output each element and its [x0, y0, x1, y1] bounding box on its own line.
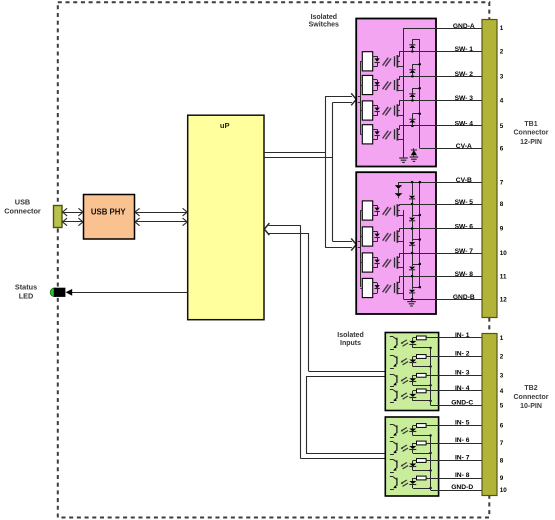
svg-text:12-PIN: 12-PIN	[520, 139, 542, 146]
svg-text:CV-B: CV-B	[456, 177, 472, 184]
svg-text:7: 7	[500, 179, 504, 186]
svg-text:IN- 2: IN- 2	[455, 351, 470, 358]
svg-text:Status: Status	[15, 283, 37, 292]
svg-text:IN- 1: IN- 1	[455, 332, 470, 339]
svg-text:5: 5	[500, 123, 504, 130]
svg-text:8: 8	[500, 458, 504, 465]
svg-text:TB2: TB2	[524, 385, 537, 392]
svg-text:uP: uP	[220, 121, 230, 130]
svg-text:IN- 4: IN- 4	[455, 385, 470, 392]
svg-text:9: 9	[500, 475, 504, 482]
svg-text:10-PIN: 10-PIN	[520, 403, 542, 410]
svg-text:TB1: TB1	[524, 121, 537, 128]
svg-text:CV-A: CV-A	[456, 143, 472, 150]
svg-text:Inputs: Inputs	[340, 340, 361, 347]
svg-text:6: 6	[500, 423, 504, 430]
svg-text:3: 3	[500, 373, 504, 380]
svg-text:Isolated: Isolated	[337, 332, 363, 339]
svg-text:11: 11	[500, 273, 507, 280]
svg-text:8: 8	[500, 201, 504, 208]
svg-text:5: 5	[500, 402, 504, 409]
svg-text:SW- 7: SW- 7	[455, 248, 474, 255]
svg-text:IN- 7: IN- 7	[455, 455, 470, 462]
svg-text:Isolated: Isolated	[311, 14, 337, 21]
svg-text:9: 9	[500, 226, 504, 233]
svg-text:IN- 6: IN- 6	[455, 437, 470, 444]
svg-text:LED: LED	[19, 292, 34, 301]
svg-text:SW- 8: SW- 8	[455, 271, 474, 278]
svg-text:GND-B: GND-B	[453, 294, 475, 301]
svg-text:GND-D: GND-D	[451, 484, 473, 491]
svg-text:10: 10	[500, 487, 508, 494]
svg-text:7: 7	[500, 440, 504, 447]
svg-text:Connector: Connector	[514, 394, 549, 401]
svg-text:GND-C: GND-C	[451, 399, 473, 406]
svg-text:SW- 6: SW- 6	[455, 223, 474, 230]
svg-text:IN- 5: IN- 5	[455, 420, 470, 427]
svg-text:12: 12	[500, 296, 508, 303]
svg-text:IN- 3: IN- 3	[455, 369, 470, 376]
svg-text:SW- 1: SW- 1	[455, 46, 474, 53]
svg-text:2: 2	[500, 354, 504, 361]
svg-text:GND-A: GND-A	[453, 23, 475, 30]
svg-text:6: 6	[500, 145, 504, 152]
svg-text:1: 1	[500, 335, 504, 342]
svg-text:SW- 2: SW- 2	[455, 71, 474, 78]
svg-text:SW- 5: SW- 5	[455, 199, 474, 206]
svg-text:USB: USB	[15, 198, 30, 207]
svg-text:IN- 8: IN- 8	[455, 472, 470, 479]
svg-text:3: 3	[500, 74, 504, 81]
svg-text:Connector: Connector	[4, 207, 41, 216]
svg-text:2: 2	[500, 49, 504, 56]
svg-text:4: 4	[500, 98, 504, 105]
svg-text:Switches: Switches	[309, 22, 339, 29]
svg-text:SW- 3: SW- 3	[455, 95, 474, 102]
svg-text:Connector: Connector	[514, 130, 549, 137]
svg-text:1: 1	[500, 25, 504, 32]
svg-text:10: 10	[500, 250, 508, 257]
svg-text:SW- 4: SW- 4	[455, 121, 474, 128]
svg-text:USB PHY: USB PHY	[91, 207, 126, 216]
svg-text:4: 4	[500, 388, 504, 395]
